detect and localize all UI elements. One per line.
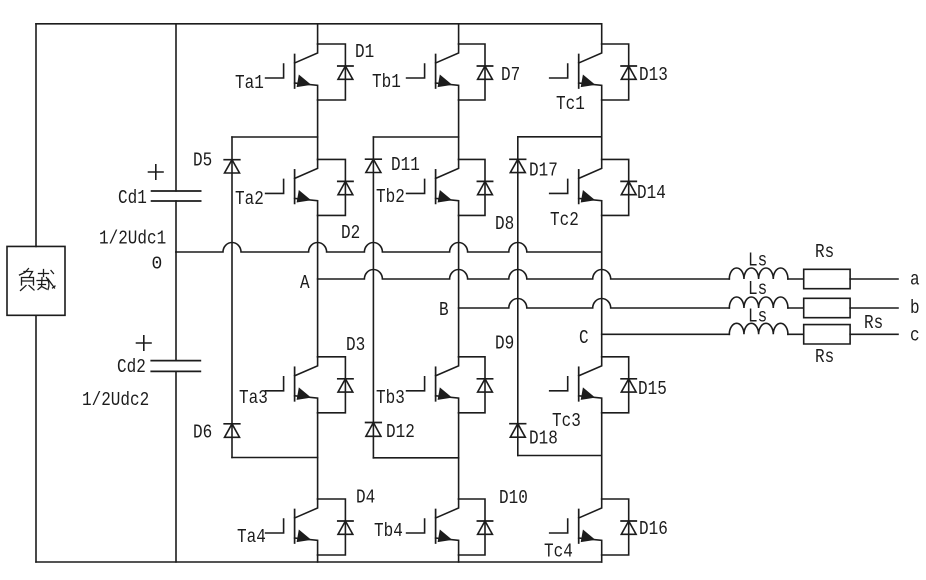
wire: clamp branch b vertical [372,137,374,458]
load box 负载 [7,246,65,315]
wire: cap branch node 0 to Cd2 [175,252,177,361]
diode D6 [193,422,240,444]
wire: phase A output bus (hops clamp-b, leg-b, clamp-c, leg-c) [318,270,730,280]
resistor Rs (phase a) [804,241,850,289]
transistor Tc3 [550,357,602,432]
wire: phase B output bus (hops clamp-c, leg-c) [459,299,730,309]
node A [300,272,310,294]
svg-text:D8: D8 [495,213,514,235]
resistor Rs (phase c) [804,312,884,368]
svg-text:D11: D11 [391,154,420,176]
transistor Tb4 [374,499,459,555]
diode D14 [602,159,666,215]
terminal b [910,297,920,319]
wire: Ls-c to Rs-c [788,333,804,335]
transistor Tc4 [544,499,602,563]
resistor Rs (phase b) [804,298,850,317]
svg-text:Tb2: Tb2 [376,186,405,208]
svg-text:D2: D2 [341,222,360,244]
wire: leg c Tc2 to Tc3 (through output node) [601,215,603,356]
diode D1 [318,41,375,100]
label 负 (load char 1) [20,269,35,291]
diode D2 [318,159,361,244]
diode D15 [602,357,667,413]
svg-text:D7: D7 [501,64,520,86]
wire: left wire top bus to load [35,24,37,247]
diode D4 [318,487,376,556]
svg-text:Ls: Ls [748,250,767,272]
inductor Ls (phase a) [729,250,788,280]
svg-text:Ta3: Ta3 [239,387,268,409]
wire: leg a Ta1 to Ta2 [317,100,319,159]
transistor Ta2 [235,159,318,215]
diode D11 [366,154,420,176]
svg-text:D3: D3 [346,334,365,356]
wire: top DC bus (P rail) [36,23,602,25]
svg-text:A: A [300,272,310,294]
svg-text:D15: D15 [638,378,667,400]
wire: leg c Tc1 to Tc2 [601,100,603,159]
transistor Tc1 [550,44,602,115]
svg-text:Tc3: Tc3 [552,410,581,432]
wire: Ls-b to Rs-b [788,307,804,309]
svg-text:1/2Udc2: 1/2Udc2 [82,389,149,411]
svg-text:1/2Udc1: 1/2Udc1 [99,228,166,250]
wire: left wire load to bottom bus [35,315,37,562]
wire: leg c Tc3 to Tc4 [601,413,603,499]
terminal a [910,269,920,291]
transistor Tc2 [550,159,602,231]
inductor Ls (phase c) [729,306,788,335]
wire: clamp branch a vertical [231,137,233,458]
svg-text:D5: D5 [193,150,212,172]
svg-text:D1: D1 [355,41,374,63]
wire: Rs-c to terminal c [850,333,898,335]
transistor Tb2 [376,159,459,215]
wire: leg c P rail to Tc1 [601,24,603,44]
transistor Tb3 [376,357,459,413]
diode D16 [602,499,668,555]
diode D13 [602,44,668,100]
svg-text:b: b [910,297,920,319]
wire: leg a Ta4 to N rail [317,555,319,562]
node C [579,327,589,349]
wire: clamp branch c upper connector [518,136,602,138]
wire: leg a Ta3 to Ta4 [317,413,319,499]
svg-text:Ls: Ls [748,278,767,300]
wire: phase C output bus [602,333,730,335]
svg-text:Rs: Rs [815,346,834,368]
diode D7 [459,44,521,100]
wire: clamp branch b lower connector [373,457,458,459]
svg-text:Tc1: Tc1 [556,93,585,115]
wire: clamp branch a lower connector [232,457,318,459]
wire: Ls-a to Rs-a [788,278,804,280]
svg-text:D14: D14 [637,182,666,204]
svg-text:Ta4: Ta4 [237,526,266,548]
wire: bottom DC bus (N rail) [36,561,602,563]
wire: leg b Tb1 to Tb2 [458,100,460,159]
node 0 [152,255,163,275]
svg-text:D12: D12 [386,421,415,443]
diode D5 [193,150,240,174]
inductor Ls (phase b) [729,278,788,308]
svg-text:Rs: Rs [864,312,883,334]
svg-text:Ta2: Ta2 [235,188,264,210]
svg-text:B: B [439,299,449,321]
wire: clamp branch c lower connector [518,455,602,457]
svg-text:D13: D13 [639,64,668,86]
wire: leg b Tb2 to Tb3 (through output node) [458,215,460,356]
transistor Ta1 [235,44,318,100]
capacitor Cd1 [118,187,201,209]
label + polarity Cd2 [137,336,152,350]
svg-text:Tb4: Tb4 [374,520,403,542]
wire: leg c Tc4 to N rail [601,555,603,562]
svg-text:D4: D4 [356,487,375,509]
wire: Rs-a to terminal a [850,278,898,280]
wire: clamp branch a upper connector [232,136,318,138]
wire: leg b P rail to Tb1 [458,24,460,44]
wire: leg b Tb4 to N rail [458,555,460,562]
svg-text:D16: D16 [639,518,668,540]
svg-text:Cd1: Cd1 [118,187,147,209]
svg-text:c: c [910,325,920,347]
wire: Rs-b to terminal b [850,307,898,309]
wire: clamp branch c vertical [517,137,519,456]
svg-text:Rs: Rs [815,241,834,263]
wire: leg a P rail to Ta1 [317,24,319,44]
diode D18 [510,424,558,450]
svg-text:0: 0 [152,255,163,275]
wire: cap branch Cd2 to bottom bus [175,371,177,562]
transistor Ta4 [237,499,318,555]
capacitor Cd2 [117,356,200,378]
terminal c [910,325,920,347]
svg-text:Tb3: Tb3 [376,387,405,409]
wire: clamp branch b upper connector [373,136,458,138]
label + polarity Cd1 [149,165,164,179]
svg-text:Ta1: Ta1 [235,72,264,94]
diode D3 [318,334,366,413]
svg-text:D17: D17 [529,160,558,182]
svg-text:Tb1: Tb1 [372,71,401,93]
svg-text:D6: D6 [193,422,212,444]
svg-text:C: C [579,327,589,349]
diode D17 [510,159,558,181]
label 1/2Udc1 [99,228,166,250]
svg-text:D9: D9 [495,333,514,355]
svg-text:Cd2: Cd2 [117,356,146,378]
label 载 (load char 2) [37,270,55,290]
wire: leg a Ta2 to Ta3 (through output node) [317,215,319,356]
wire: neutral bus 0 (hops clamp-a, leg-a, clamp-b, leg-b, clamp-c; joins leg-c) [176,243,602,253]
wire: cap branch Cd1 to node 0 [175,201,177,252]
label 1/2Udc2 [82,389,149,411]
svg-text:D10: D10 [499,487,528,509]
node B [439,299,449,321]
wire: leg b Tb3 to Tb4 [458,413,460,499]
diode D10 [459,487,528,555]
wire: cap branch top (P to Cd1) [175,24,177,191]
transistor Ta3 [239,357,318,413]
diode D9 [459,333,515,413]
diode D12 [366,421,415,443]
svg-text:Ls: Ls [748,306,767,328]
svg-text:a: a [910,269,920,291]
transistor Tb1 [372,44,459,100]
diode D8 [459,159,515,235]
svg-text:Tc4: Tc4 [544,541,573,563]
svg-text:Tc2: Tc2 [550,209,579,231]
